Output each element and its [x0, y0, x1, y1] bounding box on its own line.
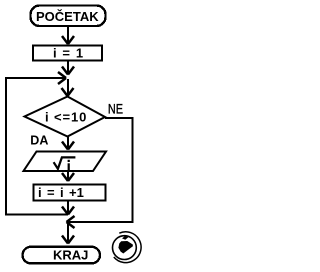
svg-text:KRAJ: KRAJ	[53, 248, 88, 263]
wire decision to output with arrowhead (DA branch)	[62, 137, 74, 150]
io parallelogram sqrt(i)	[24, 152, 107, 172]
wire NE branch right rail	[132, 117, 134, 223]
svg-text:DA: DA	[30, 134, 48, 148]
svg-text:i = i +1: i = i +1	[38, 185, 84, 200]
wire loop-back entering junction with right arrowhead	[5, 72, 66, 84]
terminator POCETAK	[31, 6, 106, 27]
wire into KRAJ with arrowhead	[62, 222, 74, 244]
wire start to i=1 with arrowhead	[62, 27, 74, 44]
wire loop left rail	[5, 77, 7, 216]
svg-text:i = 1: i = 1	[53, 46, 83, 61]
letter i of sqrt(i)	[68, 160, 70, 162]
wire loop bottom horizontal	[5, 214, 68, 216]
wire output to i=i+1 with arrowhead	[62, 172, 74, 181]
wire NE branch bottom horizontal with left arrowhead	[67, 216, 134, 228]
logo bolt cap	[122, 236, 128, 240]
process box i = i + 1	[34, 185, 106, 201]
svg-text:i <=10: i <=10	[45, 110, 87, 125]
wire i=i+1 down to loop corner with arrowhead	[62, 202, 74, 215]
svg-text:POČETAK: POČETAK	[36, 9, 99, 24]
logo outer arc	[114, 232, 141, 263]
terminator KRAJ	[23, 247, 101, 264]
wire NE branch horizontal from decision	[105, 117, 134, 119]
process box i = 1	[33, 46, 102, 61]
sqrt radical	[54, 157, 76, 169]
logo bolt body	[118, 241, 132, 254]
wire i=1 to junction with arrowhead	[62, 61, 74, 75]
decision diamond i <= 10	[25, 97, 106, 137]
svg-text:NE: NE	[108, 101, 123, 117]
wire junction to decision with arrowhead	[62, 79, 74, 96]
logo inner circle	[113, 236, 137, 260]
